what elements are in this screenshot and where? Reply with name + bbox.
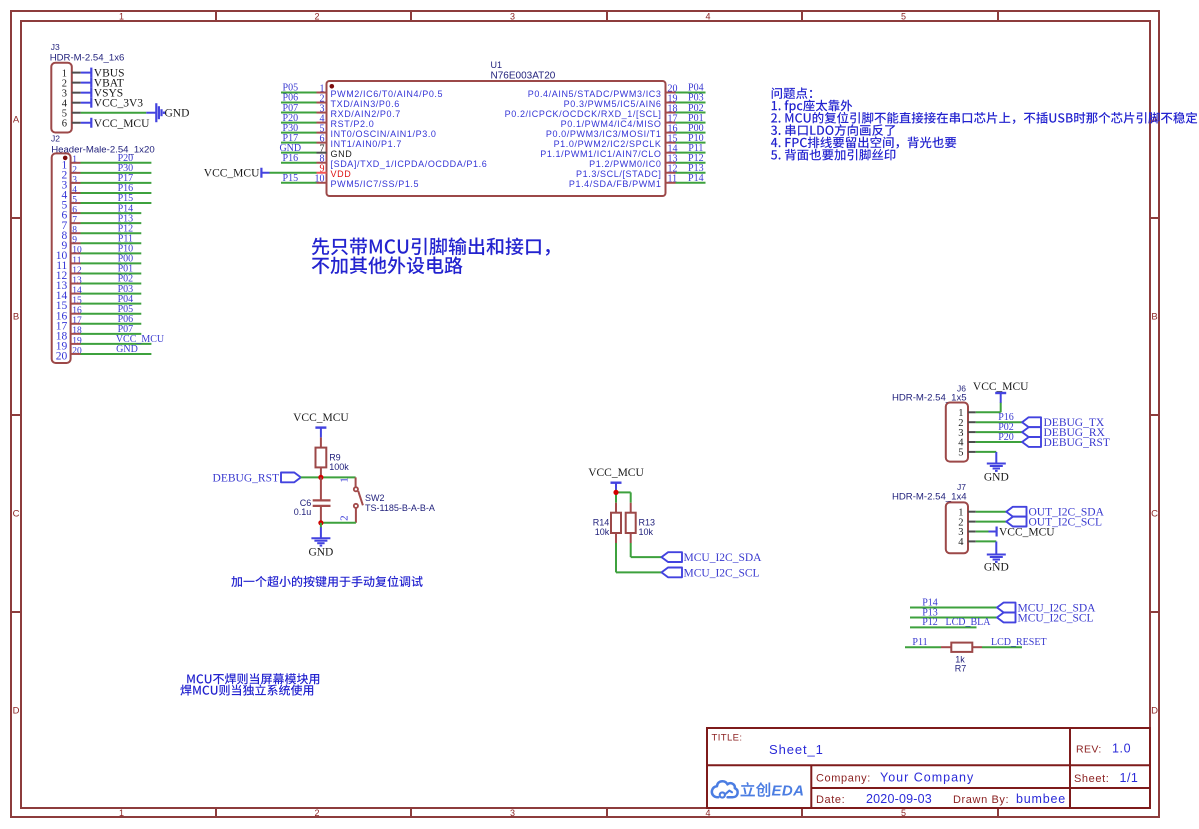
svg-text:P0.4/AIN5/STADC/PWM3/IC3: P0.4/AIN5/STADC/PWM3/IC3 bbox=[528, 89, 662, 99]
wire U1 pin 17 net P01 bbox=[676, 122, 706, 124]
svg-text:P12: P12 bbox=[922, 617, 938, 628]
net flag VCC_MCU (J7 pin3) bbox=[989, 527, 1056, 539]
wire U1 pin 3 net P07 bbox=[281, 112, 317, 114]
svg-text:EDA: EDA bbox=[772, 783, 805, 800]
R7 body bbox=[951, 643, 972, 652]
J2 pin stubs bbox=[71, 163, 81, 354]
port MCU_I2C_SCL (pull-up) bbox=[662, 567, 760, 579]
net label VCC_MCU (J2 pin 19) bbox=[116, 334, 165, 345]
wire R13 to SDA port bbox=[631, 543, 662, 557]
svg-text:DEBUG_RST: DEBUG_RST bbox=[213, 472, 279, 484]
wire J2 pin 20 net GND bbox=[81, 353, 152, 355]
power flag VCC_MCU (J6) bbox=[973, 381, 1029, 403]
J2 body bbox=[52, 153, 71, 363]
svg-text:TITLE:: TITLE: bbox=[712, 733, 743, 744]
svg-text:VCC_MCU: VCC_MCU bbox=[204, 168, 260, 180]
SW2 contact circles bbox=[354, 487, 358, 508]
text big annotation center bbox=[312, 237, 550, 274]
wire U1 pin 6 net P17 bbox=[281, 142, 317, 144]
svg-text:RXD/AIN2/P0.7: RXD/AIN2/P0.7 bbox=[331, 109, 401, 119]
C6 plates bbox=[313, 500, 331, 506]
svg-text:0.1u: 0.1u bbox=[294, 507, 312, 517]
net label P14 bbox=[922, 597, 938, 608]
wire J2 pin 18 net P07 bbox=[81, 333, 142, 335]
svg-text:VCC_3V3: VCC_3V3 bbox=[94, 98, 143, 110]
wire net P12 LCD_BLA bbox=[910, 626, 977, 628]
svg-text:P1.1/PWM1/IC1/AIN7/CLO: P1.1/PWM1/IC1/AIN7/CLO bbox=[540, 149, 661, 159]
net label P02 (U1 pin 18) bbox=[688, 103, 704, 114]
wire net P13 to MCU_I2C_SCL bbox=[910, 617, 997, 619]
SW2 pin 2 stub bbox=[355, 508, 357, 523]
net label GND (U1 pin 7) bbox=[279, 143, 301, 154]
svg-text:P15: P15 bbox=[283, 173, 299, 184]
ground GND (reset circuit) bbox=[308, 527, 333, 558]
R7 pin stubs bbox=[941, 646, 982, 648]
wire J2 pin 8 net P12 bbox=[81, 232, 142, 234]
svg-text:P16: P16 bbox=[283, 153, 299, 164]
svg-text:VCC_MCU: VCC_MCU bbox=[973, 381, 1029, 393]
svg-text:Sheet:: Sheet: bbox=[1074, 773, 1109, 785]
port MCU_I2C_SDA (LCD) bbox=[997, 603, 1096, 615]
net label P11 (J2 pin 9) bbox=[118, 233, 133, 244]
wire J6 pin4 net P20 bbox=[976, 441, 1022, 443]
port OUT_I2C_SCL bbox=[1006, 517, 1102, 529]
svg-text:2020-09-03: 2020-09-03 bbox=[866, 792, 932, 806]
wire net P11 to R7 bbox=[905, 646, 941, 648]
wire J2 pin 7 net P13 bbox=[81, 222, 142, 224]
svg-text:B: B bbox=[13, 312, 19, 323]
svg-text:C: C bbox=[13, 509, 20, 520]
svg-text:Date:: Date: bbox=[816, 794, 845, 806]
svg-text:VDD: VDD bbox=[331, 169, 352, 179]
wire net P14 to MCU_I2C_SDA bbox=[910, 607, 997, 609]
svg-text:P1.3/SCL/[STADC]: P1.3/SCL/[STADC] bbox=[576, 169, 661, 179]
svg-text:10k: 10k bbox=[639, 527, 654, 537]
R9 body bbox=[316, 448, 327, 468]
logo LCEDA (cloud + text) bbox=[712, 781, 805, 799]
R14 body bbox=[611, 513, 621, 533]
wire U1 pin 16 net P00 bbox=[676, 132, 706, 134]
net label LCD_BLA bbox=[946, 617, 992, 628]
net label P14 (J2 pin 6) bbox=[118, 203, 134, 214]
svg-text:TS-1185-B-A-B-A: TS-1185-B-A-B-A bbox=[365, 503, 435, 513]
svg-text:MCU_I2C_SCL: MCU_I2C_SCL bbox=[1018, 613, 1094, 625]
svg-text:P20: P20 bbox=[998, 432, 1014, 443]
net label P00 (U1 pin 16) bbox=[688, 123, 704, 134]
SW2 pin 1 stub bbox=[355, 477, 357, 487]
U1 right pin numbers 20-11 bbox=[668, 83, 678, 184]
wire U1 pin 15 net P10 bbox=[676, 142, 706, 144]
switch SW2 TS-1185-B-A-B-A bbox=[339, 477, 435, 523]
wire U1 pin 5 net P30 bbox=[281, 132, 317, 134]
net label P15 (U1 pin 10) bbox=[283, 173, 299, 184]
svg-text:D: D bbox=[1151, 706, 1158, 717]
svg-text:GND: GND bbox=[331, 149, 353, 159]
svg-text:1: 1 bbox=[119, 12, 124, 22]
svg-text:4: 4 bbox=[705, 12, 710, 22]
port OUT_I2C_SDA bbox=[1006, 507, 1104, 519]
svg-text:U1: U1 bbox=[491, 60, 503, 70]
wire C6 to bottom node bbox=[320, 506, 322, 523]
net flag VBUS (J3 pin 1) bbox=[81, 68, 125, 80]
svg-text:5: 5 bbox=[901, 808, 906, 818]
svg-text:P1.2/PWM0/IC0: P1.2/PWM0/IC0 bbox=[589, 159, 661, 169]
J6 body bbox=[946, 403, 968, 462]
svg-text:1.0: 1.0 bbox=[1112, 742, 1131, 756]
wire U1 pin 1 net P05 bbox=[281, 92, 317, 94]
wire J2 pin 16 net P05 bbox=[81, 313, 142, 315]
net label P17 (U1 pin 6) bbox=[283, 133, 299, 144]
svg-text:VCC_MCU: VCC_MCU bbox=[588, 467, 644, 479]
svg-text:VCC_MCU: VCC_MCU bbox=[293, 412, 349, 424]
J6 pin numbers 1-5 bbox=[958, 408, 964, 459]
wire U1 pin 8 net P16 bbox=[281, 162, 317, 164]
R13 pin stubs bbox=[630, 503, 632, 543]
port DEBUG_RST bbox=[213, 472, 301, 484]
resistor R14 10k bbox=[593, 503, 621, 543]
net label P16 (J2 pin 4) bbox=[118, 183, 134, 194]
net label P03 (J2 pin 14) bbox=[118, 284, 134, 295]
svg-text:bumbee: bumbee bbox=[1016, 792, 1066, 806]
U1 left pin numbers 1-10 bbox=[315, 83, 325, 184]
wire U1 pin 14 net P11 bbox=[676, 152, 706, 154]
wire J6 pin1 to VCC bbox=[976, 402, 1001, 412]
wire J6 pin5 to GND bbox=[976, 451, 997, 453]
net label P17 (J2 pin 3) bbox=[118, 173, 134, 184]
U1 left pin stubs (pins 1-10) bbox=[317, 93, 327, 183]
wire J6 pin2 net P16 bbox=[976, 421, 1022, 423]
svg-text:3: 3 bbox=[510, 12, 515, 22]
svg-text:1/1: 1/1 bbox=[1120, 771, 1139, 785]
wire U1 pin 13 net P12 bbox=[676, 162, 706, 164]
port DEBUG_RST bbox=[1022, 437, 1110, 449]
svg-text:INT0/OSCIN/AIN1/P3.0: INT0/OSCIN/AIN1/P3.0 bbox=[331, 129, 437, 139]
connector J7 HDR-M-2.54_1x4 bbox=[892, 482, 976, 553]
svg-text:P0.3/PWM5/IC5/AIN6: P0.3/PWM5/IC5/AIN6 bbox=[564, 99, 662, 109]
svg-text:GND: GND bbox=[984, 561, 1009, 573]
svg-text:P1.4/SDA/FB/PWM1: P1.4/SDA/FB/PWM1 bbox=[569, 179, 662, 189]
svg-text:6: 6 bbox=[62, 118, 67, 129]
svg-text:GND: GND bbox=[116, 344, 138, 355]
svg-text:D: D bbox=[13, 706, 20, 717]
net label P13 (J2 pin 7) bbox=[118, 213, 134, 224]
wire VCC to junction bbox=[615, 490, 617, 503]
wire J2 pin 17 net P06 bbox=[81, 323, 142, 325]
wire J7 pin2 to OUT_I2C_SCL bbox=[976, 521, 1007, 523]
svg-text:2: 2 bbox=[314, 12, 319, 22]
ground GND (J7) bbox=[984, 542, 1009, 574]
svg-text:LCD_RESET: LCD_RESET bbox=[991, 637, 1047, 648]
svg-text:Company:: Company: bbox=[816, 773, 871, 785]
net label P10 (J2 pin 10) bbox=[118, 244, 134, 255]
svg-text:100k: 100k bbox=[329, 462, 349, 472]
svg-text:VCC_MCU: VCC_MCU bbox=[999, 527, 1055, 539]
wire J2 pin 10 net P10 bbox=[81, 252, 142, 254]
svg-text:Drawn By:: Drawn By: bbox=[953, 794, 1009, 806]
svg-text:MCU_I2C_SCL: MCU_I2C_SCL bbox=[684, 567, 760, 579]
net label P30 (J2 pin 2) bbox=[118, 163, 134, 174]
net label P01 (U1 pin 17) bbox=[688, 113, 704, 124]
text annotation reset button bbox=[231, 576, 422, 587]
net label P13 (U1 pin 12) bbox=[688, 163, 704, 174]
svg-text:20: 20 bbox=[56, 351, 68, 363]
net label P16 (U1 pin 8) bbox=[283, 153, 299, 164]
net label P01 (J2 pin 12) bbox=[118, 264, 134, 275]
svg-text:INT1/AIN0/P1.7: INT1/AIN0/P1.7 bbox=[331, 139, 402, 149]
wire U1 pin 11 net P14 bbox=[676, 182, 706, 184]
resistor R13 10k bbox=[626, 503, 655, 543]
wire J2 pin 12 net P01 bbox=[81, 272, 142, 274]
svg-text:P14: P14 bbox=[688, 173, 704, 184]
J3 body bbox=[51, 63, 72, 133]
net label P20 (J2 pin 1) bbox=[118, 153, 134, 164]
svg-text:MCU_I2C_SDA: MCU_I2C_SDA bbox=[684, 552, 763, 564]
svg-text:VCC_MCU: VCC_MCU bbox=[94, 118, 150, 130]
junction node RST bottom bbox=[318, 520, 323, 525]
net flag VBAT (J3 pin 2) bbox=[81, 78, 124, 90]
wire J2 pin 2 net P30 bbox=[81, 172, 152, 174]
port MCU_I2C_SDA (pull-up) bbox=[662, 552, 763, 564]
svg-text:GND: GND bbox=[165, 108, 190, 120]
text annotation bottom left bbox=[180, 673, 319, 696]
wire U1 pin 19 net P03 bbox=[676, 102, 706, 104]
U1 right pin name labels bbox=[505, 89, 662, 189]
junction pull-up top bbox=[613, 490, 618, 495]
wire J7 pin4 to GND bbox=[976, 540, 997, 542]
power flag VCC_MCU (pull-ups) bbox=[588, 467, 644, 493]
svg-text:P1.0/PWM2/IC2/SPCLK: P1.0/PWM2/IC2/SPCLK bbox=[554, 139, 662, 149]
wire bottom node to GND bbox=[320, 523, 322, 528]
svg-text:5: 5 bbox=[958, 448, 963, 459]
svg-text:Sheet_1: Sheet_1 bbox=[769, 742, 824, 757]
net label P30 (U1 pin 5) bbox=[283, 123, 299, 134]
U1 body bbox=[327, 81, 666, 196]
svg-text:LCD_BLA: LCD_BLA bbox=[946, 617, 992, 628]
wire J2 pin 15 net P04 bbox=[81, 303, 142, 305]
svg-text:PWM5/IC7/SS/P1.5: PWM5/IC7/SS/P1.5 bbox=[331, 179, 420, 189]
svg-text:P11: P11 bbox=[912, 637, 927, 648]
resistor R9 100k bbox=[316, 448, 350, 472]
svg-text:2: 2 bbox=[339, 515, 351, 521]
wire J2 pin 5 net P15 bbox=[81, 202, 152, 204]
net label GND (J2 pin 20) bbox=[116, 344, 138, 355]
net label P03 (U1 pin 19) bbox=[688, 93, 704, 104]
net label P02 (J6 pin3) bbox=[998, 422, 1014, 433]
J2 pin name numbers 1-20 bbox=[56, 159, 68, 362]
svg-text:Your Company: Your Company bbox=[880, 771, 974, 785]
port MCU_I2C_SCL (LCD) bbox=[997, 613, 1094, 625]
net label P10 (U1 pin 15) bbox=[688, 133, 704, 144]
svg-text:J7: J7 bbox=[957, 482, 966, 492]
wire U1 pin 10 net P15 bbox=[281, 182, 317, 184]
svg-text:1: 1 bbox=[119, 808, 124, 818]
net label P05 (U1 pin 1) bbox=[283, 83, 299, 94]
wire U1 pin 2 net P06 bbox=[281, 102, 317, 104]
wire J2 pin 1 net P20 bbox=[81, 162, 152, 164]
wire J7 pin3 to VCC_MCU flag bbox=[976, 531, 989, 533]
J6 pin stubs bbox=[968, 412, 976, 452]
wire VCC to R9 bbox=[320, 438, 322, 448]
svg-text:5: 5 bbox=[901, 12, 906, 22]
svg-text:4: 4 bbox=[705, 808, 710, 818]
U1 left pin name labels bbox=[331, 89, 488, 189]
svg-text:PWM2/IC6/T0/AIN4/P0.5: PWM2/IC6/T0/AIN4/P0.5 bbox=[331, 89, 444, 99]
U1 right pin stubs (pins 20-11) bbox=[666, 93, 676, 183]
net label P02 (J2 pin 13) bbox=[118, 274, 134, 285]
svg-text:DEBUG_RST: DEBUG_RST bbox=[1044, 437, 1110, 449]
svg-text:GND: GND bbox=[984, 471, 1009, 483]
net label P11 bbox=[912, 637, 927, 648]
net label P20 (U1 pin 4) bbox=[283, 113, 299, 124]
title block bbox=[707, 728, 1150, 808]
capacitor C6 0.1u bbox=[294, 498, 331, 517]
svg-text:TXD/AIN3/P0.6: TXD/AIN3/P0.6 bbox=[331, 99, 400, 109]
R13 body bbox=[626, 513, 636, 533]
wire U1 pin 4 net P20 bbox=[281, 122, 317, 124]
wire J2 pin 13 net P02 bbox=[81, 283, 142, 285]
net flag VCC_3V3 (J3 pin 4) bbox=[81, 98, 143, 110]
net flag VCC_MCU (J3 pin 6) bbox=[81, 118, 150, 130]
svg-text:REV:: REV: bbox=[1076, 744, 1102, 756]
net flag VSYS (J3 pin 3) bbox=[81, 88, 123, 100]
svg-text:GND: GND bbox=[308, 547, 333, 559]
J2 pin numbers 1-20 bbox=[72, 155, 82, 356]
svg-text:A: A bbox=[13, 115, 20, 126]
net label P04 (U1 pin 20) bbox=[688, 83, 704, 94]
svg-text:HDR-M-2.54_1x4: HDR-M-2.54_1x4 bbox=[892, 492, 967, 503]
net label LCD_RESET bbox=[991, 637, 1047, 648]
wire R14 to SCL port bbox=[616, 543, 662, 572]
svg-text:2: 2 bbox=[314, 808, 319, 818]
ground GND (J6) bbox=[984, 452, 1009, 483]
net label P15 (J2 pin 5) bbox=[118, 193, 134, 204]
wire J2 pin 11 net P00 bbox=[81, 262, 142, 264]
net label P14 (U1 pin 11) bbox=[688, 173, 704, 184]
J3 pin numbers 1-6 bbox=[62, 68, 68, 129]
wire J2 pin 6 net P14 bbox=[81, 212, 142, 214]
port DEBUG_RX bbox=[1022, 427, 1105, 439]
svg-text:B: B bbox=[1151, 312, 1157, 323]
net label P06 (U1 pin 2) bbox=[283, 93, 299, 104]
net label P06 (J2 pin 17) bbox=[118, 314, 134, 325]
wire J2 pin 9 net P11 bbox=[81, 242, 142, 244]
svg-text:P0.0/PWM3/IC3/MOSI/T1: P0.0/PWM3/IC3/MOSI/T1 bbox=[546, 129, 662, 139]
net label P00 (J2 pin 11) bbox=[118, 254, 134, 265]
svg-text:RST/P2.0: RST/P2.0 bbox=[331, 119, 375, 129]
net label P04 (J2 pin 15) bbox=[118, 294, 134, 305]
net flag VCC_MCU (U1 pin 9) bbox=[204, 168, 270, 180]
wire DEBUG_RST node horizontal bbox=[301, 476, 356, 478]
svg-text:10k: 10k bbox=[595, 527, 610, 537]
wire node to C6 bbox=[320, 477, 322, 500]
J3 pin stubs bbox=[72, 73, 81, 123]
wire J2 pin 14 net P03 bbox=[81, 293, 142, 295]
wire J2 pin 19 net VCC_MCU bbox=[81, 343, 152, 345]
net label P05 (J2 pin 16) bbox=[118, 304, 134, 315]
J7 body bbox=[946, 502, 968, 553]
svg-text:R14: R14 bbox=[593, 517, 610, 527]
wire J2 pin 4 net P16 bbox=[81, 192, 152, 194]
op-amp/IC U1 N76E003AT20 bbox=[315, 60, 678, 196]
port DEBUG_TX bbox=[1022, 417, 1105, 429]
wire U1 pin 12 net P13 bbox=[676, 172, 706, 174]
svg-text:C: C bbox=[1151, 509, 1158, 520]
net label P12 bbox=[922, 617, 938, 628]
svg-text:P0.2/ICPCK/OCDCK/RXD_1/[SCL]: P0.2/ICPCK/OCDCK/RXD_1/[SCL] bbox=[505, 109, 662, 119]
net label P07 (U1 pin 3) bbox=[283, 103, 299, 114]
wire U1 pin 9 VDD to VCC_MCU flag bbox=[270, 172, 317, 174]
svg-text:[SDA]/TXD_1/ICPDA/OCDDA/P1.6: [SDA]/TXD_1/ICPDA/OCDDA/P1.6 bbox=[331, 159, 488, 169]
net label P20 (J6 pin4) bbox=[998, 432, 1014, 443]
wire J7 pin1 to OUT_I2C_SDA bbox=[976, 511, 1007, 513]
wire U1 pin 7 net GND bbox=[281, 152, 317, 154]
junction node RST top bbox=[318, 475, 323, 480]
net label P13 bbox=[922, 607, 938, 618]
resistor R7 1k bbox=[941, 643, 982, 674]
net label P11 (U1 pin 14) bbox=[688, 143, 703, 154]
svg-text:J3: J3 bbox=[51, 42, 60, 52]
wire junction to R13 top bbox=[616, 492, 631, 502]
svg-text:J2: J2 bbox=[51, 134, 60, 144]
power flag VCC_MCU (reset circuit) bbox=[293, 412, 349, 437]
wire J6 pin3 net P02 bbox=[976, 431, 1022, 433]
wire J3 pin5 to GND bbox=[81, 112, 147, 114]
connector J2 Header-Male-2.54_1x20 bbox=[51, 134, 155, 364]
svg-text:N76E003AT20: N76E003AT20 bbox=[491, 70, 556, 81]
wire U1 pin 18 net P02 bbox=[676, 112, 706, 114]
connector J6 HDR-M-2.54_1x5 bbox=[892, 384, 976, 462]
svg-text:4: 4 bbox=[958, 537, 964, 548]
svg-text:1: 1 bbox=[339, 477, 351, 483]
net label P07 (J2 pin 18) bbox=[118, 324, 134, 335]
svg-text:R7: R7 bbox=[955, 663, 967, 673]
svg-text:3: 3 bbox=[510, 808, 515, 818]
wire U1 pin 20 net P04 bbox=[676, 92, 706, 94]
net label P16 (J6 pin2) bbox=[998, 412, 1014, 423]
wire R7 to LCD_RESET bbox=[982, 646, 1022, 648]
net label P12 (J2 pin 8) bbox=[118, 223, 134, 234]
net label P12 (U1 pin 13) bbox=[688, 153, 704, 164]
J7 pin stubs bbox=[968, 512, 976, 542]
svg-text:R13: R13 bbox=[639, 517, 656, 527]
SW2 actuator lever bbox=[358, 491, 363, 505]
svg-text:P0.1/PWM4/IC4/MISO: P0.1/PWM4/IC4/MISO bbox=[561, 119, 662, 129]
wire bottom node to SW2 pin2 bbox=[321, 522, 356, 524]
J2 pin-1 marker dot bbox=[63, 156, 68, 161]
R14 pin stubs bbox=[615, 503, 617, 543]
svg-text:SW2: SW2 bbox=[365, 493, 385, 503]
text notes list top right bbox=[771, 87, 1197, 160]
ground GND (J3 pin5) bbox=[146, 103, 189, 122]
U1 pin-1 marker dot bbox=[330, 84, 335, 89]
wire R9 to node bbox=[320, 467, 322, 477]
connector J3 HDR-M-2.54_1x6 bbox=[50, 42, 125, 132]
wire J2 pin 3 net P17 bbox=[81, 182, 152, 184]
J7 pin numbers 1-4 bbox=[958, 507, 964, 548]
